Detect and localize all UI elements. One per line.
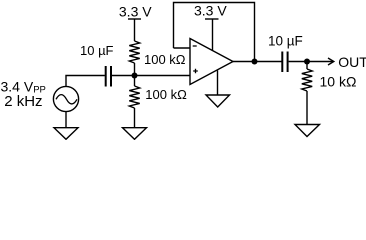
wire node A to R2 bbox=[134, 76, 136, 87]
op-amp U1 plus sign bbox=[193, 69, 198, 74]
wire R2 to ground bbox=[134, 108, 136, 128]
svg-text:OUT: OUT bbox=[338, 54, 366, 70]
op-amp U1 bbox=[190, 39, 233, 85]
source VS sine bbox=[56, 95, 77, 104]
node OUT junction dot bbox=[304, 59, 310, 65]
resistor R2 100k bottom bbox=[129, 86, 139, 108]
op-amp U1 minus sign bbox=[193, 45, 197, 47]
capacitor C2 plates bbox=[282, 52, 287, 73]
svg-text:3.3 V: 3.3 V bbox=[119, 3, 152, 19]
power 3.3V rail op-amp bar bbox=[205, 18, 219, 20]
wire op-amp bottom to ground bbox=[217, 70, 219, 95]
wire C2 to OUT node bbox=[289, 61, 307, 63]
power 3.3V rail left bar bbox=[128, 18, 141, 20]
wire R1 to node A bbox=[134, 63, 136, 76]
node A junction dot bbox=[132, 73, 138, 79]
svg-text:10 µF: 10 µF bbox=[268, 34, 303, 49]
ground under R2 bbox=[123, 128, 147, 140]
wire source bottom to ground bbox=[65, 112, 67, 128]
wire OUT node to R3 bbox=[306, 62, 308, 70]
capacitor C1 plates bbox=[106, 66, 111, 87]
wire inverting input bbox=[174, 47, 191, 49]
ground under source VS bbox=[54, 128, 78, 140]
svg-text:3.3 V: 3.3 V bbox=[194, 3, 227, 19]
feedback wire output to inverting input bbox=[174, 3, 255, 62]
wire op-amp output to C2 bbox=[233, 61, 282, 63]
ground under R3 bbox=[295, 125, 320, 137]
svg-text:10 kΩ: 10 kΩ bbox=[320, 74, 357, 90]
wire source top to C1 bbox=[66, 76, 105, 87]
wire 3.3V bar to R1 bbox=[134, 19, 136, 41]
wire C1 to op-amp + input bbox=[112, 75, 190, 77]
wire R3 to ground bbox=[306, 91, 308, 125]
svg-text:100 kΩ: 100 kΩ bbox=[145, 87, 187, 102]
svg-text:2 kHz: 2 kHz bbox=[4, 93, 42, 110]
ground under op-amp bbox=[206, 95, 230, 107]
node B junction dot feedback tap bbox=[252, 59, 258, 65]
source VS circle bbox=[53, 86, 78, 111]
resistor R1 100k top bbox=[129, 41, 139, 63]
svg-text:100 kΩ: 100 kΩ bbox=[144, 52, 186, 67]
svg-text:10 µF: 10 µF bbox=[80, 43, 114, 58]
arrow to OUT bbox=[307, 61, 333, 63]
resistor R3 10k load bbox=[302, 69, 312, 91]
wire 3.3V to op-amp top bbox=[212, 19, 214, 51]
